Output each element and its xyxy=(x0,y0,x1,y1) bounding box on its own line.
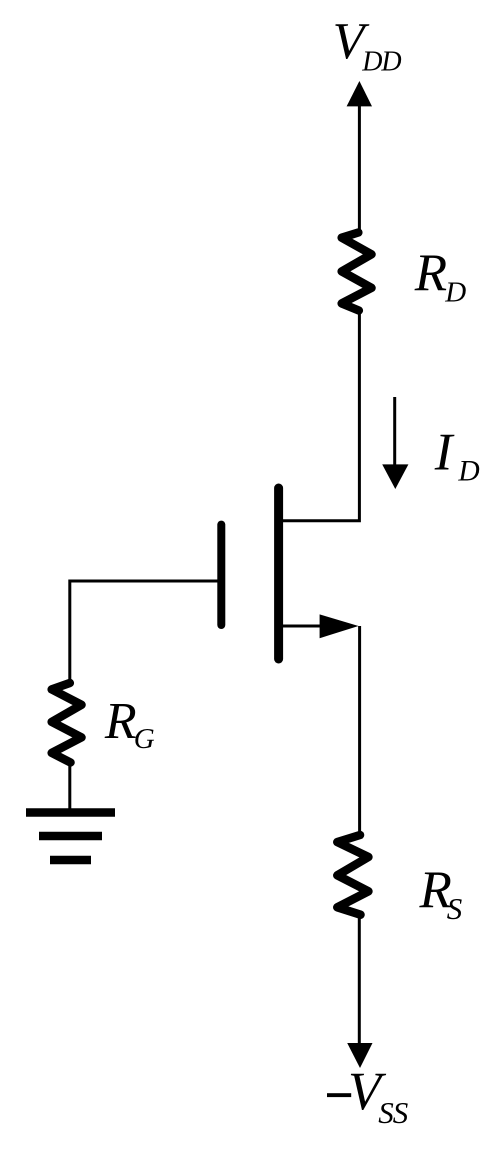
svg-text:DD: DD xyxy=(361,47,401,78)
svg-text:I: I xyxy=(434,424,455,482)
svg-text:SS: SS xyxy=(378,1095,408,1130)
svg-text:D: D xyxy=(457,455,479,487)
svg-text:R: R xyxy=(104,693,137,750)
svg-text:D: D xyxy=(444,277,466,309)
svg-text:G: G xyxy=(134,723,155,755)
svg-text:R: R xyxy=(414,244,447,302)
svg-text:S: S xyxy=(447,891,463,926)
